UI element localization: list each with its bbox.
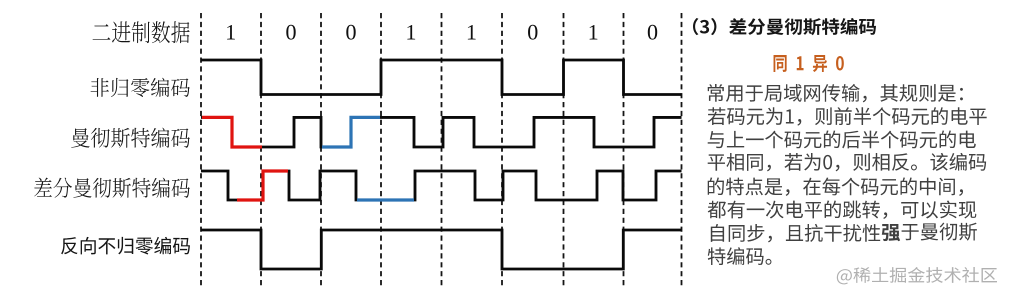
row label Diff Manchester — [34, 178, 190, 198]
row label inverted NRZ — [61, 237, 190, 255]
row label binary data — [93, 21, 190, 43]
Manchester blue highlight bit0 — [322, 117, 380, 147]
Manchester red highlight bit1 — [202, 117, 262, 147]
bit-cell boundary dashed lines — [201, 13, 682, 287]
binary data digits 1 0 0 1 1 0 1 0 — [227, 25, 657, 40]
NRZ waveform — [201, 60, 682, 95]
Diff-Manchester red highlight transition — [237, 171, 288, 200]
heading (3) Differential Manchester encoding — [693, 18, 876, 35]
row label Manchester — [71, 128, 190, 148]
body paragraph about differential Manchester — [708, 84, 987, 265]
Diff-Manchester blue highlight no-transition — [357, 198, 414, 201]
orange note same-1 differ-0 — [774, 55, 844, 72]
inverted NRZ waveform — [201, 230, 682, 269]
watermark juejin community — [837, 267, 997, 284]
row label NRZ — [91, 78, 190, 97]
Differential Manchester waveform — [201, 171, 682, 200]
Manchester waveform — [201, 117, 682, 147]
